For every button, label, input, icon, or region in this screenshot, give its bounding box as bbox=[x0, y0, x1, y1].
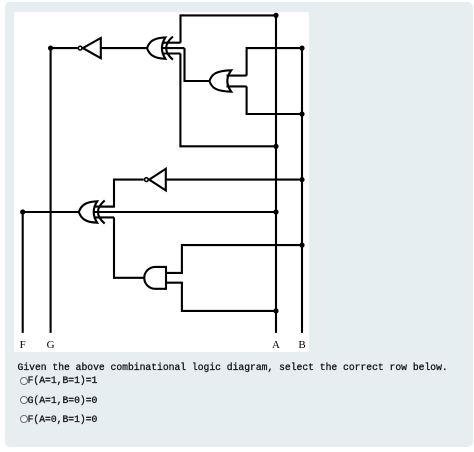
wire N2 output to U3 top input bbox=[100, 180, 144, 207]
wire A to U1 bottom input bbox=[180, 54, 276, 147]
net F rail bbox=[22, 212, 24, 333]
wire B to U4 top input bbox=[166, 245, 302, 273]
radio option 2 bbox=[20, 396, 28, 404]
junction dot G bbox=[48, 46, 53, 51]
wire B to U2 top input bbox=[247, 48, 302, 76]
junction dot F bbox=[20, 209, 25, 214]
xor U1 top input lead bbox=[162, 42, 181, 44]
not gate N2 bubble bbox=[145, 178, 149, 182]
or gate U2 body bbox=[210, 70, 232, 91]
net G rail bbox=[50, 48, 52, 333]
xor gate U3 input arc bbox=[98, 200, 105, 223]
net A rail bbox=[275, 15, 277, 333]
xor U3 top input lead bbox=[94, 206, 115, 208]
junction dot B top bbox=[299, 46, 304, 51]
xor U1 bottom input lead bbox=[162, 52, 180, 54]
not gate N1 triangle bbox=[83, 38, 101, 58]
wire U2 output to U1 mid input bbox=[185, 48, 210, 81]
junction dot A 146 bbox=[273, 144, 278, 149]
wire A to U1 top input bbox=[181, 15, 277, 42]
not gate N1 bubble bbox=[78, 46, 82, 50]
xor gate U1 input arc bbox=[166, 37, 173, 60]
not gate N2 triangle bbox=[149, 169, 166, 191]
wire inverter N1 output to G bbox=[51, 47, 78, 49]
xor U3 mid input lead bbox=[93, 211, 276, 213]
and gate U4 body bbox=[144, 267, 166, 289]
junction dot A top bbox=[273, 13, 278, 18]
xor gate U1 body bbox=[147, 37, 165, 58]
question text bbox=[18, 362, 448, 373]
wire B to N2 input bbox=[166, 179, 302, 181]
junction dot B 179 bbox=[299, 177, 304, 182]
junction dot B 114 bbox=[299, 111, 304, 116]
junction dot B 245 bbox=[299, 243, 304, 248]
radio option 1 bbox=[20, 377, 28, 385]
wire U3 output to F bbox=[23, 211, 79, 213]
xor U1 mid input lead bbox=[162, 47, 185, 49]
svg-text:A: A bbox=[272, 339, 280, 351]
wire U4 output to U3 bottom input bbox=[114, 217, 144, 277]
svg-text:F: F bbox=[20, 339, 26, 351]
svg-text:B: B bbox=[298, 339, 305, 351]
xor U3 bottom input lead bbox=[94, 216, 115, 218]
or U2 top input lead bbox=[227, 75, 247, 77]
wire xor U1 output to N1 input bbox=[101, 47, 147, 49]
net B rail bbox=[301, 48, 303, 333]
or U2 bottom input lead bbox=[227, 85, 247, 87]
xor gate U3 body bbox=[79, 201, 97, 222]
wire A to U4 bottom input bbox=[166, 283, 276, 311]
radio option 3 bbox=[20, 415, 28, 423]
wire B to U2 bottom input bbox=[247, 86, 302, 114]
junction dot A 310 bbox=[273, 308, 278, 313]
svg-text:G: G bbox=[47, 339, 55, 351]
junction dot A 212 bbox=[273, 209, 278, 214]
